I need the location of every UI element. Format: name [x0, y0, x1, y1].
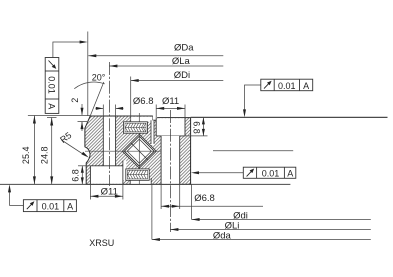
- dimension 24.8: [40, 118, 57, 185]
- roller (crossed roller cross-section, diamond): [124, 136, 154, 166]
- bottom seal strip: [126, 169, 149, 180]
- svg-text:6.8: 6.8: [71, 169, 81, 182]
- dimension O11 top: [156, 96, 185, 118]
- svg-text:Ø6.8: Ø6.8: [194, 193, 215, 204]
- roller horizontal centerline: [85, 150, 161, 152]
- svg-text:Ø11: Ø11: [101, 187, 118, 198]
- svg-text:0.01: 0.01: [278, 81, 296, 91]
- raceway V lines (expanded diamond): [122, 134, 156, 168]
- right ring counterbore O11: [156, 118, 185, 136]
- dimension Odi: [192, 184, 371, 221]
- dimension ODi: [131, 70, 224, 82]
- 20 degree arc: [74, 82, 104, 89]
- dimension 6.8 left counterbore depth: [71, 166, 91, 185]
- svg-text:A: A: [47, 103, 57, 109]
- dimension Oda: [152, 184, 371, 241]
- svg-text:R5: R5: [58, 130, 73, 145]
- axis segment right of section: [213, 150, 293, 152]
- svg-text:Ø11: Ø11: [162, 96, 179, 107]
- right hole centerline: [169, 110, 171, 232]
- bearing body hatched outline (both rings): [85, 116, 191, 184]
- svg-text:2: 2: [70, 98, 80, 103]
- dimension 2 (chamfer): [70, 98, 87, 131]
- dimension ODa: [88, 43, 223, 58]
- feature control frame top-right: [261, 79, 313, 91]
- svg-text:ØDa: ØDa: [174, 43, 194, 54]
- dimension O6.8 bottom right: [161, 184, 263, 209]
- svg-text:Øda: Øda: [213, 231, 232, 242]
- left hole centerline: [108, 62, 110, 186]
- dimension OLa: [109, 56, 223, 68]
- left ring bolt hole (O6.8 channel): [103, 116, 115, 166]
- ODa extension line: [87, 32, 89, 117]
- datum frame top-left (rotated) leader: [53, 42, 85, 58]
- svg-text:24.8: 24.8: [40, 147, 50, 165]
- top surface extension line right: [191, 116, 388, 118]
- svg-text:A: A: [287, 169, 293, 179]
- right ring bolt hole (O6.8 channel): [161, 136, 180, 185]
- roller axis diagonal: [131, 143, 148, 160]
- dimension 6.8 right counterbore depth: [185, 117, 208, 135]
- R5 leader and label: [58, 130, 89, 157]
- svg-text:ØLa: ØLa: [172, 56, 191, 67]
- dimension O6.8 top: [96, 96, 154, 116]
- central roller zone white clearing: [122, 117, 156, 184]
- dimension OLi: [170, 221, 370, 232]
- feature control frame bottom-left: [23, 200, 76, 212]
- feature control frame top-right leader: [245, 85, 261, 114]
- roller inner contact line: [127, 139, 151, 163]
- svg-text:0.01: 0.01: [262, 169, 280, 179]
- feature control frame bottom-left leader: [10, 187, 24, 206]
- svg-text:Ø6.8: Ø6.8: [133, 96, 154, 107]
- svg-text:25.4: 25.4: [21, 147, 31, 165]
- feature control frame top-left (vertical): [45, 58, 59, 114]
- svg-text:20°: 20°: [92, 73, 106, 83]
- feature control frame mid-right: [243, 167, 295, 178]
- 20 degree chamfer construction line: [90, 82, 104, 116]
- dimension 25.4: [21, 116, 36, 185]
- ODi extension line: [130, 77, 132, 122]
- svg-text:XRSU: XRSU: [89, 238, 114, 248]
- left ring counterbore O11: [90, 166, 123, 185]
- ring gap edges (top notch and bottom gap): [123, 120, 154, 184]
- top seal strip: [124, 122, 148, 133]
- svg-text:A: A: [303, 81, 309, 91]
- top surface extension line left: [28, 115, 90, 117]
- feature control frame mid-right leader: [194, 172, 243, 174]
- svg-text:0.01: 0.01: [42, 201, 60, 211]
- roller vertical centerline: [138, 113, 140, 184]
- dimension O11 bottom: [90, 184, 123, 199]
- svg-text:A: A: [67, 201, 73, 211]
- svg-text:0.01: 0.01: [47, 76, 57, 94]
- bottom surface long line: [0, 183, 290, 185]
- svg-text:6.8: 6.8: [192, 121, 202, 134]
- svg-text:ØDi: ØDi: [174, 70, 190, 81]
